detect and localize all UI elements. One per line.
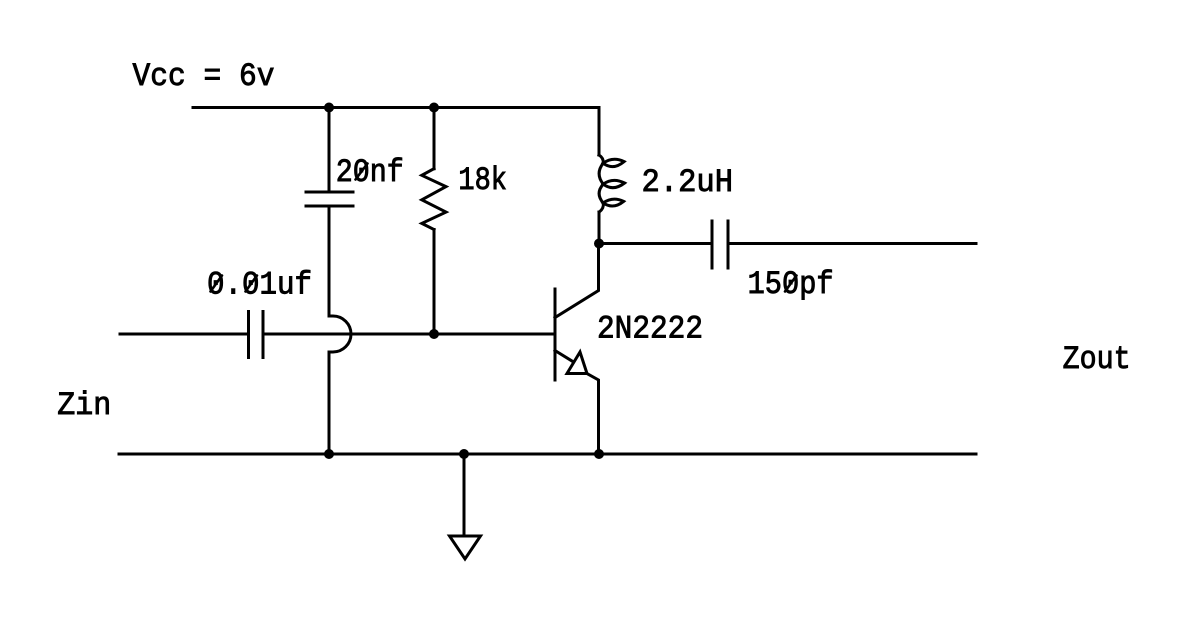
junction dot base-18k <box>429 329 439 339</box>
slash in zero of 150pf <box>785 276 797 292</box>
wire base segment <box>263 333 555 336</box>
wire ground stub <box>463 454 466 536</box>
junction dot ground rail 20nf <box>324 449 334 459</box>
svg-text:20nf: 20nf <box>336 154 404 191</box>
svg-text:Vcc = 6v: Vcc = 6v <box>133 58 275 95</box>
wire 20nf top lead <box>328 108 331 193</box>
junction dot Vcc-20nf <box>324 103 334 113</box>
wire output right segment <box>728 242 976 245</box>
svg-text:Zin: Zin <box>57 387 111 424</box>
svg-text:Zout: Zout <box>1063 341 1131 378</box>
junction dot ground rail emitter <box>594 449 604 459</box>
wire output left segment <box>599 242 712 245</box>
svg-text:18k: 18k <box>458 162 507 199</box>
resistor 18k bottom lead <box>433 230 436 335</box>
wire Vcc rail <box>193 106 599 109</box>
inductor 2.2uH <box>599 155 625 212</box>
junction dot Vcc-18k <box>429 103 439 113</box>
slash in second zero of 0.01uf <box>246 276 258 292</box>
wire 20nf bottom lead with hop over input wire <box>329 206 351 454</box>
junction dot ground rail stub <box>459 449 469 459</box>
slash in zero of 20nf <box>356 164 368 180</box>
svg-text:2N2222: 2N2222 <box>597 311 703 348</box>
wire inductor top lead <box>598 108 601 156</box>
junction dot collector node <box>594 239 604 249</box>
transistor Q1 2N2222 <box>555 244 599 455</box>
svg-text:2.2uH: 2.2uH <box>642 164 734 201</box>
svg-text:0.01uf: 0.01uf <box>207 267 312 304</box>
wire inductor bottom lead <box>598 212 601 244</box>
capacitor 0.01uf <box>249 312 264 358</box>
wire input left segment <box>120 333 249 336</box>
wire ground rail <box>119 453 976 456</box>
capacitor 20nf <box>306 192 353 206</box>
ground <box>450 536 481 559</box>
capacitor 150pf <box>712 221 728 268</box>
resistor 18k top lead <box>433 108 436 169</box>
slash in first zero of 0.01uf <box>211 276 223 292</box>
resistor 18k <box>422 169 446 230</box>
